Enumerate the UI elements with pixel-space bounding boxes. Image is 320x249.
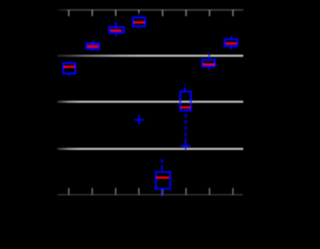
boxplot 4 median xyxy=(134,21,145,23)
gridline 1 xyxy=(57,55,243,57)
top axis tick 1 xyxy=(68,10,70,16)
top axis tick 6 xyxy=(185,10,187,16)
boxplot 4 upper whisker dash xyxy=(138,14,140,16)
boxplot 1 box xyxy=(63,63,75,73)
bottom axis tick 3 xyxy=(115,188,117,195)
boxplot 6 upper whisker dashes xyxy=(184,84,186,92)
boxplot 4 flier + xyxy=(134,115,144,124)
boxplot 7 median xyxy=(203,63,215,65)
boxplot 5 box xyxy=(156,172,170,189)
bottom axis tick 7 xyxy=(209,188,211,195)
boxplot 3 median xyxy=(111,29,122,31)
boxplot 3 upper whisker xyxy=(115,22,117,27)
boxplot 7 box xyxy=(202,60,215,67)
top axis tick 8 xyxy=(232,10,234,16)
boxplot 8 upper whisker dash xyxy=(231,36,233,39)
boxplot 2 upper whisker xyxy=(92,41,94,44)
bottom axis tick 6 xyxy=(185,188,187,195)
top x-axis spine xyxy=(57,9,243,11)
boxplot 3 lower whisker xyxy=(115,33,117,36)
boxplot 7 upper whisker dash xyxy=(208,54,210,58)
boxplot 2 lower whisker xyxy=(92,49,94,51)
boxplot 6 lower whisker dashes xyxy=(185,114,187,142)
bottom axis tick 2 xyxy=(91,188,93,195)
boxplot 1 upper whisker xyxy=(68,61,70,63)
boxplot 6 median xyxy=(181,106,191,108)
boxplot 6 box xyxy=(180,92,191,111)
bottom axis tick 4 xyxy=(138,188,140,195)
bottom axis tick 8 xyxy=(232,188,234,195)
boxplot 5 median xyxy=(157,176,169,178)
bottom axis tick 1 xyxy=(68,188,70,195)
boxplot 8 lower whisker xyxy=(230,46,232,49)
boxplot 2 median xyxy=(88,45,99,47)
boxplot 4 box xyxy=(133,18,145,27)
gridline 2 xyxy=(57,101,243,103)
gridline 3 xyxy=(57,148,243,150)
boxplot 1 median xyxy=(64,66,75,68)
boxplot 8 median xyxy=(226,42,236,44)
top axis tick 7 xyxy=(209,10,211,16)
top axis tick 5 xyxy=(162,10,164,16)
boxplot 6 flier + xyxy=(181,141,191,150)
bottom axis tick 5 xyxy=(162,188,164,195)
boxplot 8 box xyxy=(225,39,238,46)
bottom x-axis spine xyxy=(57,194,243,196)
boxplot 3 box xyxy=(109,27,124,33)
top axis tick 3 xyxy=(115,10,117,16)
boxplot 2 box xyxy=(87,44,100,49)
top axis tick 2 xyxy=(91,10,93,16)
boxplot 5 upper whisker dashes xyxy=(161,159,163,170)
boxplot 5 lower whisker xyxy=(161,190,163,197)
boxplot 1 lower whisker xyxy=(68,73,70,76)
top axis tick 4 xyxy=(138,10,140,13)
boxplot 4 lower whisker xyxy=(138,26,140,28)
boxplot 7 lower whisker xyxy=(208,66,210,70)
